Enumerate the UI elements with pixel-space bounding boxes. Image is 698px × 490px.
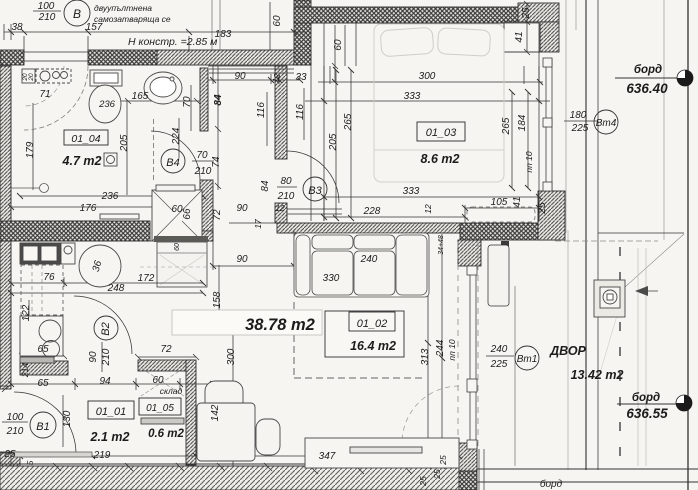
slope line to drain [625,234,684,287]
door B4 swing arc [151,131,200,180]
svg-text:210: 210 [6,426,24,437]
svg-text:25: 25 [521,7,532,20]
svg-text:65: 65 [37,378,49,389]
svg-text:74: 74 [211,156,222,168]
svg-text:72: 72 [160,344,172,355]
dim vertical 158 x219 [218,265,220,330]
svg-text:В3: В3 [308,185,322,197]
svg-text:38.78 m2: 38.78 m2 [245,316,315,334]
svg-text:142: 142 [210,404,221,421]
extension lines bedroom top dims [324,66,539,103]
node B4 circle [161,149,185,173]
svg-text:60: 60 [333,39,344,51]
wall top band right of door B crosshatch part [88,50,157,65]
svg-text:330: 330 [323,273,340,284]
svg-text:122: 122 [21,304,32,321]
svg-text:01_05: 01_05 [146,403,174,414]
small shelf bathroom [100,214,139,219]
band H top/bottom edge lines [229,223,460,233]
dim line hall y384 [11,378,213,390]
wall top band left segment [0,50,24,65]
svg-text:12: 12 [423,204,433,214]
svg-text:25: 25 [537,202,548,215]
closet shelf [141,418,184,424]
svg-text:180: 180 [570,110,587,121]
dim lines bedroom top [305,82,550,101]
door B1 swing arc [14,392,76,452]
svg-text:214: 214 [20,363,30,378]
dashed shower edge [153,119,155,180]
fraction lines door labels [2,11,598,422]
svg-text:16.4 m2: 16.4 m2 [350,339,396,353]
kitchen big circle table [79,245,121,287]
svg-text:склад: склад [160,386,183,396]
wall corner block top right upper [518,3,559,22]
wall cap duct [186,231,213,241]
svg-text:228: 228 [363,206,381,217]
svg-text:25: 25 [3,449,16,460]
wall band below bedroom [277,223,460,233]
svg-text:борд: борд [634,64,662,76]
node Bt4 circle [594,110,618,134]
svg-text:Вт4: Вт4 [596,118,617,129]
svg-text:210: 210 [101,348,112,366]
bedroom inner west wall lines [311,23,324,221]
sofa [294,233,429,297]
svg-text:347: 347 [319,451,336,462]
svg-text:пп 10: пп 10 [447,339,457,360]
counter bar [20,357,54,363]
dim line закрытие y452 left [0,451,20,453]
dim line bathroom y101 [120,98,200,104]
svg-text:В4: В4 [166,157,179,169]
svg-text:636.40: 636.40 [626,81,668,96]
washer dashed unit [22,69,35,83]
svg-text:01_04: 01_04 [71,133,100,145]
svg-text:65: 65 [37,344,49,355]
svg-text:313: 313 [420,348,431,365]
wall strip hall-bedroom partition stub [275,203,287,223]
svg-text:25: 25 [438,455,448,466]
window niche sill hall [209,69,294,73]
svg-text:12: 12 [275,203,285,213]
svg-text:176: 176 [80,203,97,214]
node Bt1 circle [515,346,539,370]
wall strip bathroom east lower [200,180,213,241]
wall top band diagonal part [157,50,311,65]
svg-text:72: 72 [212,209,223,221]
svg-text:225: 225 [490,359,508,370]
svg-text:157: 157 [86,22,103,33]
dim line niche y80 [208,66,300,84]
dim verticals bathroom [33,100,179,195]
svg-text:41: 41 [514,31,525,42]
node B1 circle [30,412,56,438]
dim 60 verticals bedroom corners [270,2,356,82]
wall left exterior [0,66,11,389]
svg-text:179: 179 [25,141,36,158]
svg-text:76: 76 [43,272,55,283]
svg-text:пп 10: пп 10 [524,151,534,172]
toilet bowl [89,85,121,123]
svg-text:240: 240 [490,344,508,355]
svg-text:300: 300 [226,348,237,365]
bedroom inner east line [538,23,540,221]
svg-text:90: 90 [236,254,248,265]
svg-text:210: 210 [38,12,56,23]
svg-text:самозатваряща се: самозатваряща се [94,14,171,24]
wall closet right [186,360,196,465]
svg-text:130: 130 [62,410,73,427]
svg-text:Вт1: Вт1 [517,354,538,365]
svg-text:01_02: 01_02 [357,318,388,330]
dim lines bedroom bottom [324,197,539,217]
terrace edge lines top [566,0,664,240]
svg-text:210: 210 [277,191,295,202]
living east glazing lines [470,266,476,449]
node B circle [64,0,90,26]
dim line 72 closet top [135,354,199,360]
yard boundary double line [585,0,587,470]
bottom band top edge [0,463,459,465]
bedroom east glazing lines [546,58,552,191]
balcony door hinge block [501,241,509,249]
dashed balcony door swing [402,386,459,443]
kitchen counter dark frame [20,243,61,264]
svg-text:225: 225 [571,123,589,134]
svg-text:60: 60 [152,375,164,386]
room label 01_03 [417,122,465,141]
slope arrow yard [635,286,648,296]
svg-text:0.6 m2: 0.6 m2 [148,428,184,440]
door B3 swing arc [287,151,342,214]
wall corner block top right side [540,22,559,52]
svg-text:4.7 m2: 4.7 m2 [62,154,102,168]
wall bottom band [0,466,459,490]
svg-text:25: 25 [418,476,428,487]
right border line [687,0,689,490]
bedroom inner top line [311,22,539,24]
svg-text:34+48: 34+48 [438,235,445,255]
dashed wardrobe bedroom [467,207,535,222]
dashed living area outline [294,302,423,378]
hall inner outline [11,241,459,466]
svg-text:60: 60 [272,15,283,27]
dim verticals living east [428,234,442,466]
svg-text:94: 94 [99,376,111,387]
yard dashed transverse line [555,240,658,242]
dim vertical 122 [28,300,30,360]
svg-text:25: 25 [432,469,442,480]
bedroom east glazing mullions [543,58,552,67]
svg-text:224: 224 [171,127,182,145]
bathroom inner outline [11,66,275,221]
svg-text:60: 60 [174,243,181,251]
dim line bathroom bottom y201/y211 [11,196,203,207]
room label 01_01 [88,401,134,419]
room label 01_02 outer box [325,311,404,357]
svg-text:105: 105 [491,197,508,208]
svg-text:70: 70 [196,150,208,161]
node B2 circle [94,316,118,340]
svg-text:172: 172 [138,273,155,284]
svg-text:борд: борд [540,478,563,490]
benchmark top [677,70,693,86]
room label 01_04 [64,130,108,145]
wall strip bathroom east upper [200,68,208,131]
svg-text:636.55: 636.55 [626,406,668,421]
svg-text:В1: В1 [36,421,49,433]
dim ticks left entrance [0,386,11,452]
street curb dashed line [619,247,621,466]
svg-text:158: 158 [212,291,223,308]
wall block living north-east dark [460,223,555,240]
wall corner block living south-east [459,443,477,471]
dim line kitchen y283 [11,277,203,287]
svg-text:205: 205 [119,134,130,152]
vent square bathroom [104,153,117,166]
door B sill lines in top wall opening [24,52,88,61]
dim line corridor y266 [213,231,294,270]
dashed closet X [141,368,184,396]
node B3 circle [303,177,327,201]
door B2 swing arc [74,296,132,354]
svg-text:265: 265 [343,113,354,131]
armchair [197,381,280,461]
dim vertical B2 door [101,342,103,372]
white band living [172,310,322,335]
extension lines bedroom dims [324,197,539,223]
svg-text:ДВОР: ДВОР [549,344,586,358]
svg-text:двуупълтнена: двуупълтнена [94,3,152,13]
floor drain bathroom [40,184,49,193]
dim vertical lines window east [512,92,528,188]
svg-text:66: 66 [182,208,193,220]
svg-text:В2: В2 [100,322,112,335]
tv bench [305,438,459,468]
wall left below entrance door [0,453,20,466]
svg-text:210: 210 [194,166,212,177]
svg-text:244: 244 [435,339,446,357]
svg-text:240: 240 [360,254,378,265]
svg-text:борд: борд [632,392,660,404]
wall bedroom north band [294,7,518,23]
dashed parapet line [457,242,459,446]
svg-text:90: 90 [236,203,248,214]
svg-text:205: 205 [328,133,339,151]
toilet tank [90,70,122,86]
extension lines top left [212,0,220,50]
dim line stove y356 [19,353,67,359]
svg-text:219: 219 [93,450,111,461]
wall corner block dark bottom [459,471,477,490]
wall closet top [138,360,192,371]
living room west corridor line [212,231,214,241]
duct shaft box [157,242,207,287]
svg-text:236: 236 [98,99,116,110]
wall strip hall-bedroom partition upper [275,66,287,159]
dim line top right vertical x530 [524,1,530,55]
svg-text:2.1 m2: 2.1 m2 [90,430,130,444]
svg-text:333: 333 [404,91,421,102]
svg-text:5: 5 [25,460,35,465]
dim line bottom y456 [20,450,459,462]
svg-text:В: В [73,7,81,21]
living east glazing mullions [467,266,477,275]
svg-text:84: 84 [213,94,224,106]
svg-text:01_03: 01_03 [426,127,457,139]
balcony door leaf [488,245,509,306]
svg-text:01_01: 01_01 [96,406,127,418]
svg-text:183: 183 [215,29,232,40]
svg-text:90: 90 [88,351,99,363]
wall stub hall left [20,361,68,375]
svg-text:265: 265 [501,117,512,135]
wall band below bathroom [0,221,150,241]
svg-text:80: 80 [280,176,292,187]
svg-text:20: 20 [28,73,35,82]
svg-text:84: 84 [260,180,271,192]
kitchen dashed cabinet [21,265,63,315]
svg-text:70: 70 [182,96,193,108]
svg-text:300: 300 [419,71,436,82]
svg-text:116: 116 [295,104,306,120]
svg-text:8.6 m2: 8.6 m2 [421,152,460,166]
dim verticals 205 265 mid [336,70,351,218]
wall block L below [458,240,481,266]
drain yard [594,280,625,317]
dim vertical 300 x233 [232,335,234,466]
stove [20,316,63,356]
svg-text:248: 248 [107,283,125,294]
svg-text:Н констр. =2.85 м: Н констр. =2.85 м [128,36,217,48]
dim line top y32 [4,31,307,33]
svg-text:236: 236 [101,191,119,202]
svg-text:71: 71 [39,89,50,100]
dim vertical 84 [215,66,221,190]
svg-text:41: 41 [512,196,523,207]
svg-text:116: 116 [256,102,267,118]
svg-text:100: 100 [38,1,55,12]
shower [152,190,202,241]
dim vertical 70 sink [190,85,192,131]
svg-text:33: 33 [295,72,307,83]
svg-text:184: 184 [517,114,528,131]
svg-text:17: 17 [253,219,263,229]
wall block window pier east [538,191,565,240]
window recess notch [504,22,540,52]
svg-text:90: 90 [234,71,246,82]
bed [374,24,504,182]
benchmark bottom [676,395,692,411]
svg-text:333: 333 [403,186,420,197]
door B dashed swing arc [24,66,88,130]
tv set [350,447,422,453]
wall column top middle [294,0,311,65]
svg-text:165: 165 [132,91,149,102]
bottom curb lines right [477,469,698,482]
svg-text:38: 38 [11,22,23,33]
sink [144,72,182,104]
yard top edge line [598,232,684,234]
dim verticals 116 [267,88,304,146]
yard faint inner line [567,230,569,470]
door B1 leaf sill [14,452,92,457]
svg-text:100: 100 [7,412,24,423]
svg-text:13.42 m2: 13.42 m2 [571,368,624,382]
dim vertical 130 [62,395,64,447]
dim line kitchen y296 [11,292,203,294]
